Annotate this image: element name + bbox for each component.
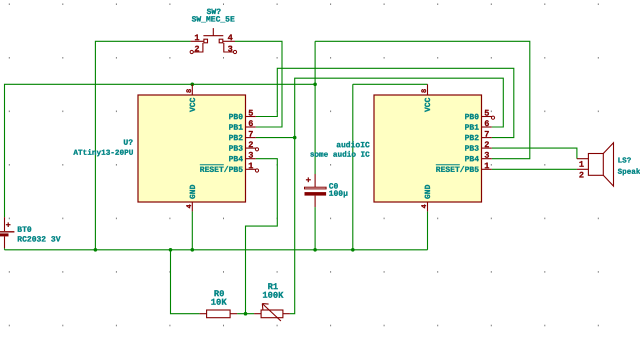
svg-text:7: 7	[248, 130, 253, 140]
battery BT0	[0, 217, 61, 248]
svg-text:BT0: BT0	[17, 226, 32, 235]
wire audio RESET/PB5 to speaker pin2	[492, 168, 577, 170]
speaker body	[588, 154, 603, 176]
wire battery plus up and right (VCC)	[5, 84, 316, 217]
svg-text:PB2: PB2	[229, 134, 244, 143]
U pin 6 (PB1)	[246, 126, 256, 128]
svg-text:100μ: 100μ	[329, 190, 348, 199]
audio pin 7 (PB2)	[482, 137, 492, 139]
svg-text:PB3: PB3	[465, 145, 480, 154]
switch pin 3	[224, 43, 234, 52]
wire GND bus	[5, 249, 428, 251]
audio pin 1 (RESET/PB5)	[482, 168, 492, 170]
svg-text:PB3: PB3	[229, 145, 244, 154]
svg-text:audioIC: audioIC	[336, 141, 370, 150]
capacitor pins	[314, 174, 316, 187]
U pin 3 (PB4)	[246, 158, 256, 160]
svg-text:PB0: PB0	[229, 113, 244, 122]
switch actuator	[203, 35, 223, 37]
switch SW?	[190, 8, 237, 54]
svg-text:VCC: VCC	[189, 97, 198, 112]
switch pin 2	[193, 43, 203, 52]
svg-text:LS?: LS?	[618, 157, 632, 166]
resistor R1 adjust arrow	[262, 304, 281, 321]
wire VCC riser and cap top	[314, 41, 316, 174]
wire audio PB3 to speaker pin1	[492, 148, 577, 159]
svg-text:some audio IC: some audio IC	[310, 151, 370, 160]
wire audio VCC horizontal	[353, 83, 428, 85]
svg-text:4: 4	[228, 33, 233, 43]
switch pin 1	[191, 40, 204, 42]
U body	[138, 95, 246, 202]
capacitor top plate	[305, 187, 327, 189]
battery plus plate	[0, 231, 14, 233]
svg-text:1: 1	[194, 33, 199, 43]
junction R0 R1	[244, 312, 248, 316]
svg-text:VCC: VCC	[424, 97, 433, 112]
speaker LS?	[577, 143, 640, 186]
capacitor bottom plate	[305, 192, 327, 196]
svg-text:PB0: PB0	[465, 113, 480, 122]
audio pin 6 (PB1)	[482, 126, 492, 128]
svg-text:GND: GND	[424, 184, 433, 199]
battery minus plate	[0, 233, 9, 236]
svg-text:100K: 100K	[262, 291, 284, 301]
svg-text:RESET/PB5: RESET/PB5	[200, 166, 243, 175]
junction bus switch	[94, 248, 98, 252]
wire bus to R0 left	[171, 250, 200, 314]
U pin 1 (RESET/PB5)	[246, 168, 256, 170]
svg-text:3: 3	[248, 151, 253, 161]
junction bus R0	[169, 248, 173, 252]
wire switch pin4 to U PB1	[235, 41, 282, 127]
svg-text:PB2: PB2	[465, 134, 480, 143]
IC audioIC	[310, 84, 495, 211]
wire R0 right to R1 left	[237, 313, 254, 315]
resistor R1 body	[261, 310, 283, 318]
junction bus audio VCC riser	[351, 248, 355, 252]
wire U PB0 to audio PB2	[256, 68, 514, 137]
resistor R0 body	[207, 310, 231, 318]
capacitor plus sign	[306, 179, 311, 181]
U pin 5 (PB0)	[246, 116, 256, 118]
resistor R1 (variable)	[254, 282, 290, 321]
svg-text:Speaker: Speaker	[618, 168, 640, 177]
svg-text:10K: 10K	[211, 298, 228, 308]
svg-text:8: 8	[421, 89, 429, 93]
svg-text:4: 4	[186, 204, 194, 208]
wire U PB4 to resistor junction	[246, 159, 278, 314]
svg-text:SW_MEC_5E: SW_MEC_5E	[192, 15, 235, 24]
audio pin 3 (PB4)	[482, 158, 492, 160]
wire switch pin1 to GND bus	[95, 41, 190, 250]
svg-text:PB4: PB4	[229, 155, 244, 164]
wire R1 right through junction to audio PB1	[290, 78, 503, 314]
svg-text:2: 2	[579, 170, 584, 180]
svg-text:3: 3	[484, 151, 489, 161]
svg-text:2: 2	[248, 140, 253, 150]
junction U PB2	[293, 136, 297, 140]
svg-text:5: 5	[484, 108, 489, 118]
wire battery minus to bus	[4, 248, 6, 250]
svg-text:ATtiny13-20PU: ATtiny13-20PU	[73, 149, 133, 158]
audio pin 5 (PB0)	[482, 116, 492, 118]
audio GND pin	[427, 202, 429, 211]
capacitor C0	[305, 174, 349, 207]
speaker cone	[603, 143, 613, 186]
svg-text:2: 2	[484, 140, 489, 150]
svg-text:GND: GND	[189, 184, 198, 199]
resistor R0 pins	[200, 313, 207, 315]
wire audio GND to bus	[427, 211, 429, 249]
svg-text:3: 3	[228, 44, 233, 54]
junction U VCC	[191, 83, 195, 87]
svg-text:PB1: PB1	[465, 124, 480, 133]
speaker pin 2	[577, 168, 589, 170]
svg-text:PB1: PB1	[229, 124, 244, 133]
audio body	[374, 95, 482, 202]
svg-text:RESET/PB5: RESET/PB5	[436, 166, 479, 175]
wire top VCC to audio PB4	[315, 41, 530, 158]
resistor R1 pins	[254, 313, 261, 315]
svg-text:8: 8	[186, 89, 194, 93]
U pin 7 (PB2)	[246, 137, 256, 139]
svg-text:1: 1	[484, 161, 489, 171]
wire audio VCC riser to bus	[352, 84, 354, 250]
svg-text:1: 1	[579, 160, 584, 170]
wire U PB2 to junction	[256, 137, 295, 139]
svg-text:U?: U?	[123, 139, 133, 148]
svg-text:6: 6	[484, 119, 489, 129]
svg-text:RC2032 3V: RC2032 3V	[17, 236, 60, 245]
svg-text:1: 1	[248, 161, 253, 171]
svg-text:2: 2	[194, 44, 199, 54]
switch pin 4	[223, 40, 235, 42]
svg-text:6: 6	[248, 119, 253, 129]
IC U? ATtiny13-20PU	[73, 84, 258, 211]
battery plus sign	[6, 224, 11, 226]
speaker pin 1	[577, 158, 589, 160]
svg-text:4: 4	[421, 204, 429, 208]
U GND pin	[191, 202, 193, 211]
svg-text:7: 7	[484, 130, 489, 140]
wire cap bottom to bus	[314, 207, 316, 250]
audio pin 2 (PB3)	[482, 147, 492, 149]
junction bus U GND	[191, 248, 195, 252]
resistor R0	[200, 289, 238, 318]
audio VCC pin	[427, 84, 429, 95]
U VCC pin	[191, 84, 193, 95]
svg-text:5: 5	[248, 108, 253, 118]
battery pins	[4, 217, 6, 231]
wire U GND to bus	[191, 211, 193, 249]
junction bus cap	[313, 248, 317, 252]
junction VCC riser	[313, 83, 317, 87]
svg-text:PB4: PB4	[465, 155, 480, 164]
U pin 2 (PB3)	[246, 147, 256, 149]
